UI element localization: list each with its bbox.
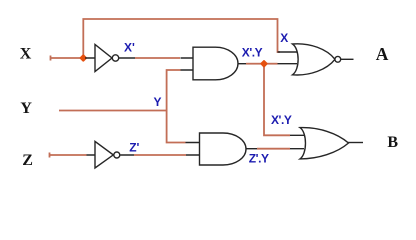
wire B output bbox=[348, 142, 363, 144]
nor-gate U5 input stubs bbox=[278, 52, 298, 64]
wire Z' from NOT2 to AND2 bbox=[134, 154, 186, 156]
wire AND2 output to OR lower input bbox=[257, 148, 290, 150]
wire Y branch up to AND1 bbox=[167, 70, 181, 111]
svg-text:Z'.Y: Z'.Y bbox=[249, 152, 269, 166]
and-gate U4 input stubs bbox=[186, 143, 200, 156]
wire X' from NOT1 to AND1 bbox=[135, 57, 180, 59]
wire AND1 output to junction bbox=[246, 63, 261, 65]
and-gate U4 output stub bbox=[246, 148, 258, 150]
inverter U2 (Z) : triangle + bubble bbox=[95, 141, 120, 168]
and-gate U3 body bbox=[193, 47, 238, 80]
wire X to NOR top rail bbox=[83, 19, 280, 56]
wire X input bbox=[51, 56, 82, 61]
svg-text:X: X bbox=[280, 31, 288, 45]
nor-gate U5 body bbox=[293, 44, 336, 75]
wire Y branch down to AND2 bbox=[167, 111, 186, 143]
svg-text:Z: Z bbox=[22, 152, 33, 169]
nor-gate U5 bubble bbox=[335, 56, 341, 62]
wire X'.Y down to OR top input bbox=[264, 67, 290, 136]
svg-text:X': X' bbox=[124, 40, 135, 54]
inverter U1 (X) : triangle + bubble bbox=[95, 45, 119, 72]
and-gate U4 body bbox=[200, 133, 247, 165]
and-gate U3 input stubs bbox=[181, 58, 194, 70]
svg-text:X'.Y: X'.Y bbox=[271, 113, 292, 127]
wire Y input bbox=[59, 110, 167, 112]
wire Z input bbox=[50, 153, 87, 158]
svg-text:Y: Y bbox=[20, 100, 32, 117]
svg-text:X: X bbox=[20, 46, 32, 63]
or-gate U6 input stubs bbox=[290, 135, 304, 148]
inverter U1 (X) : stubs bbox=[85, 57, 135, 59]
svg-text:A: A bbox=[376, 44, 389, 64]
junction J2 on X'.Y bbox=[260, 60, 268, 68]
svg-text:X'.Y: X'.Y bbox=[242, 45, 263, 59]
wire junction to NOR lower input bbox=[267, 63, 278, 65]
wire A output bbox=[341, 58, 354, 60]
and-gate U3 output stub bbox=[239, 63, 247, 65]
svg-text:Y: Y bbox=[154, 95, 162, 109]
or-gate U6 body bbox=[300, 128, 349, 159]
svg-text:B: B bbox=[387, 134, 398, 151]
junction J1 on X input bbox=[79, 54, 87, 62]
svg-text:Z': Z' bbox=[129, 140, 139, 154]
inverter U2 (Z) : stubs bbox=[87, 154, 135, 156]
